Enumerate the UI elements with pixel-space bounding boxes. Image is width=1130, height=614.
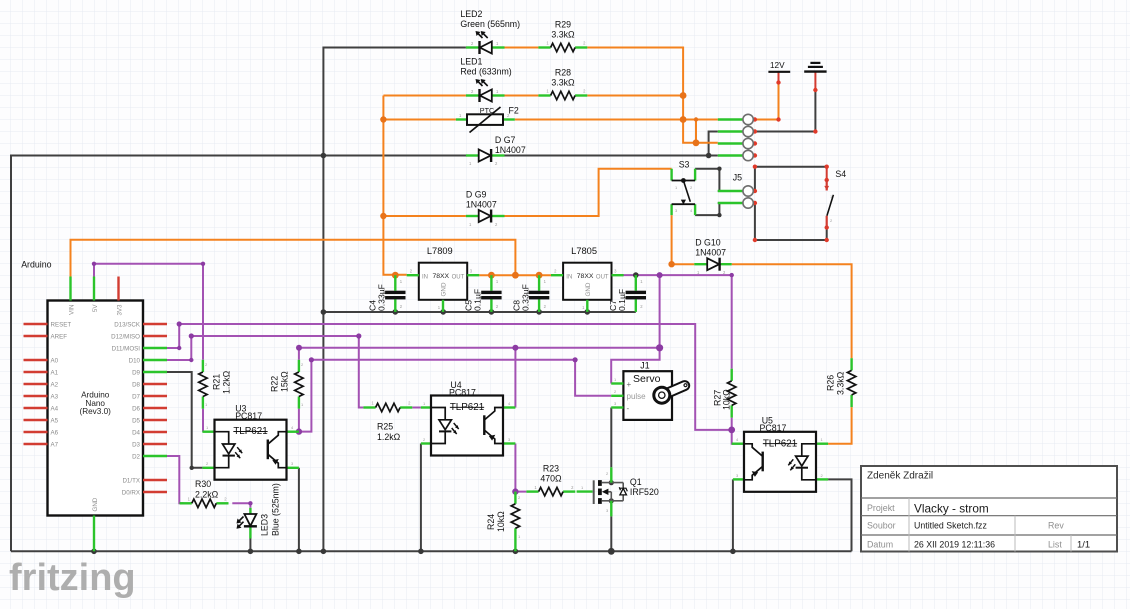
capacitor C5	[464, 275, 502, 312]
wire: gray header pin2 to earth symbol	[755, 90, 816, 132]
wire: orange header pin1 to 12V	[755, 83, 779, 120]
svg-text:Rev: Rev	[1048, 521, 1064, 531]
node junction (575.1,359.8)	[573, 357, 578, 362]
node junction (491.4,275.2)	[488, 272, 495, 279]
resistor R26 3.3k vertical	[826, 358, 856, 407]
node junction (611.3,551.3)	[608, 548, 615, 555]
wire: purple R21 bottom to U3 pin1	[202, 409, 204, 432]
node terminal (815.4,90)	[813, 88, 817, 92]
node junction (94,551.3)	[91, 549, 97, 555]
svg-text:A6: A6	[51, 429, 59, 436]
svg-text:D7: D7	[132, 393, 140, 400]
wire: orange D G9 to S3 common	[505, 169, 672, 216]
node junction (719.4,215.1)	[717, 213, 721, 217]
wire: purple L7805 out 5V feed	[623, 275, 732, 369]
node junction (659.6,275.1)	[657, 272, 663, 278]
title block	[861, 466, 1117, 552]
LED LED2 green	[460, 9, 520, 54]
svg-text:D0/RX: D0/RX	[122, 489, 140, 496]
svg-text:D G9: D G9	[466, 190, 487, 200]
node junction (250.4,503.3)	[248, 501, 252, 505]
svg-text:R26: R26	[826, 375, 836, 391]
node terminal (754.9,131.5)	[753, 129, 757, 133]
svg-text:0.33µF: 0.33µF	[520, 284, 530, 311]
wire: orange PTC row left	[383, 119, 456, 121]
node junction (420.9,551.3)	[418, 549, 424, 555]
wire: gray elbow header pin2	[709, 132, 718, 156]
svg-text:TLP621: TLP621	[450, 402, 484, 413]
svg-text:OUT: OUT	[596, 274, 609, 280]
node terminal (826.7,227.5)	[825, 225, 829, 229]
svg-text:D10: D10	[129, 357, 141, 364]
svg-text:D G10: D G10	[695, 238, 721, 248]
svg-text:PC817: PC817	[760, 423, 787, 433]
svg-text:fritzing: fritzing	[9, 557, 136, 599]
node junction (731.7,429.9)	[728, 427, 735, 434]
svg-text:OUT: OUT	[452, 274, 465, 280]
svg-text:RESET: RESET	[51, 321, 72, 328]
wire: purple D2 to R30	[167, 456, 183, 503]
svg-text:D6: D6	[132, 405, 140, 412]
wire: gray U4 pin2 to GND rail	[420, 444, 422, 552]
servo J1	[611, 361, 687, 420]
connector J5	[718, 173, 754, 209]
svg-text:S4: S4	[835, 169, 846, 179]
svg-text:12V: 12V	[770, 61, 785, 70]
wire: purple D10 rail y336 to R25	[167, 336, 363, 408]
svg-text:R28: R28	[555, 68, 571, 78]
wire: purple 5V pin to R21 top	[94, 264, 203, 360]
svg-text:5V: 5V	[92, 304, 99, 312]
connector 4-pin header circles	[718, 114, 754, 160]
node junction (515.4,347.8)	[512, 345, 518, 351]
svg-text:LED1: LED1	[460, 57, 482, 67]
wire: orange PTC row right to header pin1	[515, 119, 718, 121]
node junction (696,119.5)	[694, 117, 698, 121]
svg-text:J1: J1	[640, 361, 649, 371]
voltage regulator L7805	[551, 246, 624, 312]
node junction (659.6,347.8)	[656, 344, 663, 351]
wire: purple U3 pin4 to J1 pulse rail y360	[299, 360, 575, 432]
svg-text:S3: S3	[679, 159, 690, 169]
svg-text:1N4007: 1N4007	[466, 200, 497, 210]
power symbol 12V	[768, 61, 790, 75]
diode D G9 1N4007	[466, 190, 505, 228]
wire: purple U4 pin3 to gate node	[515, 444, 526, 492]
node junction (191.7,467.8)	[190, 466, 194, 470]
svg-text:+: +	[627, 380, 632, 389]
switch S3	[672, 159, 696, 215]
svg-text:L7809: L7809	[427, 246, 453, 256]
svg-text:Datum: Datum	[867, 540, 893, 550]
Arduino Nano module	[21, 260, 167, 552]
svg-text:D2: D2	[132, 453, 140, 460]
node terminal (754.9,119.5)	[753, 117, 757, 121]
svg-text:LED3: LED3	[260, 514, 270, 536]
node junction (683.1,95.5)	[680, 92, 687, 99]
svg-text:Untitled Sketch.fzz: Untitled Sketch.fzz	[914, 521, 987, 531]
wire: orange branch to header pin3	[696, 120, 718, 143]
node junction (696,142.8)	[693, 139, 700, 146]
svg-text:Vlacky - strom: Vlacky - strom	[914, 502, 989, 516]
svg-text:0.1µF: 0.1µF	[473, 289, 483, 311]
wire: gray U3 pin3 to GND rail	[298, 468, 300, 552]
node junction (611.3,500.8)	[609, 498, 614, 503]
node junction (203,263.8)	[201, 262, 205, 266]
resistor R27 10k vertical	[713, 369, 736, 418]
node junction (515.4,551.3)	[513, 549, 519, 555]
svg-text:pulse: pulse	[627, 392, 647, 401]
node junction (358.8,336)	[356, 333, 361, 338]
wire: purple R22 top link	[298, 348, 300, 360]
node junction (515.4,275.2)	[512, 272, 519, 279]
wire: gray S4 bottom to J5 pin2	[755, 203, 827, 240]
node junction (383.4,119.5)	[380, 116, 386, 122]
wire: red 12V symbol leg	[778, 72, 780, 83]
svg-text:A7: A7	[51, 441, 59, 448]
wire: gray LED3 cathode to GND rail	[249, 539, 251, 552]
node terminal (754.9,166.7)	[753, 165, 757, 169]
svg-text:D G7: D G7	[495, 135, 516, 145]
svg-text:A4: A4	[51, 405, 59, 412]
wire: orange R29 out to junction column	[587, 48, 696, 143]
node junction (191.3,360)	[189, 358, 193, 362]
svg-text:D11/MOSI: D11/MOSI	[112, 345, 141, 352]
node terminal (778.5,82.5)	[776, 80, 780, 84]
node terminal (826.7,240)	[825, 238, 829, 242]
svg-text:R30: R30	[195, 479, 211, 489]
resistor R25 1.2k	[363, 401, 412, 442]
node junction (383.4,216)	[380, 213, 386, 219]
svg-text:A2: A2	[51, 381, 59, 388]
node junction (94,263.8)	[92, 262, 96, 266]
wire: purple R27 bottom to U5 pin4	[732, 418, 744, 444]
svg-text:GND: GND	[92, 497, 99, 511]
node terminal (754.9,203)	[753, 201, 757, 205]
node junction (191.3,336)	[189, 333, 194, 338]
svg-text:GND: GND	[585, 282, 592, 296]
capacitor C7	[608, 275, 646, 312]
svg-text:1/1: 1/1	[1077, 539, 1090, 550]
wire: purple R25 out to U4 pin1	[412, 407, 421, 409]
node junction (719.4,168.7)	[717, 167, 721, 171]
node junction (298.9,431.6)	[296, 428, 302, 434]
resistor R23 470	[526, 464, 575, 496]
node junction (323.4,551.3)	[321, 549, 327, 555]
svg-text:78XX: 78XX	[432, 273, 449, 280]
svg-text:IRF520: IRF520	[630, 487, 659, 497]
node terminal (754.9,143.5)	[753, 141, 757, 145]
svg-text:3.3kΩ: 3.3kΩ	[836, 371, 846, 395]
svg-text:10kΩ: 10kΩ	[496, 511, 506, 532]
node junction (708.6,155.5)	[706, 153, 712, 159]
wire: orange D G9 row left	[383, 215, 466, 217]
svg-text:TLP621: TLP621	[233, 426, 267, 437]
wire: gray S3 throw1 to J5 pin1	[695, 169, 719, 191]
wire: purple J1 plus to 5V	[611, 275, 659, 383]
node junction (587.3,311.9)	[585, 309, 591, 315]
svg-text:Arduino: Arduino	[21, 260, 51, 270]
wire: orange 12V vertical x383 LED1/PTC/DG9 feed	[383, 96, 406, 275]
node junction (683.1,119.5)	[680, 116, 687, 123]
svg-text:(Rev3.0): (Rev3.0)	[79, 407, 111, 416]
svg-text:R25: R25	[377, 422, 393, 432]
svg-text:PTC: PTC	[480, 106, 494, 115]
node terminal (826.7,180)	[825, 178, 829, 182]
optocoupler U4 PC817	[421, 380, 516, 456]
svg-text:1N4007: 1N4007	[495, 145, 526, 155]
ground earth symbol	[804, 63, 826, 72]
node junction (443.2,311.9)	[440, 309, 446, 315]
node terminal (778.5,119.5)	[776, 117, 780, 121]
svg-text:IN: IN	[566, 274, 572, 280]
resistor R22 15k vertical	[270, 360, 305, 409]
node junction (635.8,275.1)	[633, 272, 639, 278]
optocoupler U5 PC817 mirrored	[732, 416, 828, 492]
svg-text:D5: D5	[132, 417, 140, 424]
wire: purple D11/MOSI rail y324 to U5 net	[167, 324, 732, 430]
node junction (611.3,482.6)	[609, 480, 614, 485]
svg-text:78XX: 78XX	[577, 273, 594, 280]
svg-text:Soubor: Soubor	[867, 521, 896, 531]
svg-text:GND: GND	[441, 282, 448, 296]
svg-text:L7805: L7805	[571, 246, 597, 256]
svg-text:VIN: VIN	[69, 305, 76, 315]
node junction (671.6,264.2)	[668, 261, 674, 267]
resistor R24 10k vertical	[486, 492, 521, 552]
svg-text:1N4007: 1N4007	[695, 248, 726, 258]
wire: gray GND rail y312	[323, 311, 635, 313]
svg-text:15kΩ: 15kΩ	[280, 371, 290, 392]
node junction (515.4,491.6)	[512, 488, 518, 494]
svg-text:Red (633nm): Red (633nm)	[460, 67, 511, 77]
wire: gray U5 pin2 to GND rail right	[828, 479, 851, 551]
node junction (323.4,312)	[321, 309, 327, 315]
wire: gray Q1 source to GND rail	[610, 516, 612, 551]
node junction (323.4,155.5)	[321, 153, 327, 159]
svg-text:A0: A0	[51, 357, 59, 364]
svg-text:IN: IN	[422, 274, 428, 280]
transistor Q1 IRF520 MOSFET	[577, 467, 659, 516]
svg-text:F2: F2	[509, 106, 519, 116]
svg-text:Servo: Servo	[633, 373, 661, 385]
wire: orange R26 bottom to U5 pin1	[828, 407, 852, 444]
svg-text:R24: R24	[486, 514, 496, 530]
diode D G10 1N4007	[694, 238, 731, 276]
LED LED3 blue vertical	[237, 483, 281, 538]
node junction (179.2,348)	[177, 346, 181, 350]
svg-text:AREF: AREF	[51, 333, 68, 340]
optocoupler U3 PC817	[202, 404, 299, 480]
node junction (731.7,275.1)	[730, 273, 734, 277]
wire: purple drop to J1 pulse	[575, 360, 611, 396]
svg-text:J5: J5	[733, 173, 742, 183]
node junction (311.4,359.8)	[309, 357, 314, 362]
wire: purple R22 bottom / U3 pin4 node	[298, 409, 300, 432]
wire: gray U5 pin3 to GND rail	[732, 479, 734, 551]
svg-text:PC817: PC817	[235, 411, 262, 421]
svg-text:R29: R29	[555, 20, 571, 30]
wire: orange VIN to 9V rail	[71, 240, 516, 277]
svg-text:A3: A3	[51, 393, 59, 400]
svg-text:D13/SCK: D13/SCK	[114, 321, 141, 328]
wire: orange R28 out	[587, 95, 683, 97]
svg-text:A5: A5	[51, 417, 59, 424]
svg-text:D1/TX: D1/TX	[122, 477, 140, 484]
node terminal (754.9,240)	[753, 238, 757, 242]
node junction (539.1,275.2)	[536, 272, 543, 279]
svg-text:D8: D8	[132, 381, 140, 388]
svg-text:0.33µF: 0.33µF	[377, 284, 387, 311]
svg-text:List: List	[1048, 540, 1062, 550]
resistor R21 1.2k vertical	[199, 360, 232, 409]
svg-text:D12/MISO: D12/MISO	[111, 333, 140, 340]
node terminal (754.9,155.5)	[753, 153, 757, 157]
LED LED1 red	[460, 57, 511, 103]
node junction (395.3,275.2)	[392, 272, 399, 279]
node junction (179.2,324)	[177, 321, 182, 326]
node terminal (815.4,131.5)	[813, 129, 817, 133]
wire: red earth symbol leg	[814, 72, 816, 90]
svg-text:D9: D9	[132, 369, 140, 376]
resistor R28 3.3k	[538, 68, 587, 100]
svg-text:D4: D4	[132, 429, 140, 436]
svg-text:3.3kΩ: 3.3kΩ	[551, 78, 575, 88]
node junction (250.4,551.3)	[248, 549, 254, 555]
resistor R29 3.3k	[538, 20, 587, 52]
svg-text:Projekt: Projekt	[867, 503, 895, 513]
svg-text:10kΩ: 10kΩ	[722, 389, 732, 410]
wire: orange rail L7809 out / caps	[479, 274, 551, 276]
svg-text:R21: R21	[212, 374, 222, 390]
node terminal (826.7,166.7)	[825, 165, 829, 169]
voltage regulator L7809	[407, 246, 480, 312]
capacitor C8	[511, 275, 549, 312]
wire: gray D G7 row right to header	[505, 155, 718, 157]
svg-text:Q1: Q1	[630, 477, 642, 487]
svg-text:LED2: LED2	[460, 9, 482, 19]
node terminal (754.9,191)	[753, 189, 757, 193]
node junction (732.9,551.3)	[730, 549, 736, 555]
wire: gray J1 minus to Q1 drain	[610, 408, 612, 468]
wire: orange LED1 to R28	[505, 95, 539, 97]
wire: purple 5V rail y348	[299, 347, 660, 349]
svg-text:D3: D3	[132, 441, 140, 448]
switch S4	[824, 169, 846, 228]
svg-text:R22: R22	[270, 376, 280, 392]
node junction (395.3,311.9)	[393, 309, 399, 315]
wire: gray D9 to U3 pin2	[167, 372, 202, 468]
svg-text:Green (565nm): Green (565nm)	[460, 19, 520, 29]
svg-text:R23: R23	[543, 464, 559, 474]
svg-text:3V3: 3V3	[117, 304, 124, 316]
svg-text:3.3kΩ: 3.3kΩ	[551, 30, 575, 40]
wire: red S4 top link	[826, 167, 828, 180]
svg-text:A1: A1	[51, 369, 59, 376]
node junction (539.1,311.9)	[536, 309, 542, 315]
svg-text:26 XII 2019 12:11:36: 26 XII 2019 12:11:36	[914, 540, 995, 550]
svg-text:Blue (525nm): Blue (525nm)	[271, 483, 281, 536]
node junction (491.4,311.9)	[489, 309, 495, 315]
fuse PTC F2	[456, 106, 519, 133]
svg-text:2.2kΩ: 2.2kΩ	[195, 490, 219, 500]
wire: orange LED1 row left	[383, 95, 466, 97]
wire: gray S3 throw2 to J5 pin2	[695, 203, 719, 215]
node junction (299,347.8)	[296, 345, 302, 351]
capacitor C4	[368, 275, 406, 312]
svg-text:0.1µF: 0.1µF	[617, 289, 627, 311]
resistor R30 2.2k	[180, 479, 229, 507]
wire: gray GND left trunk + D G7 row left	[11, 156, 468, 552]
svg-text:PC817: PC817	[449, 388, 476, 398]
wire: gray net LED2-cathode to GND trunk	[323, 48, 466, 552]
wire: purple R30 out to LED3	[232, 503, 250, 508]
wire: gray J5 pin1 to S4 top	[755, 167, 827, 191]
wire: gray bottom GND rail	[11, 550, 852, 552]
diode D G7 1N4007	[466, 135, 526, 166]
svg-text:1.2kΩ: 1.2kΩ	[222, 370, 232, 394]
svg-text:-: -	[627, 404, 630, 413]
wire: orange LED2 to R29	[505, 47, 539, 49]
svg-text:470Ω: 470Ω	[540, 474, 562, 484]
svg-text:Zdeněk Zdražil: Zdeněk Zdražil	[867, 471, 933, 482]
svg-text:TLP621: TLP621	[763, 438, 797, 449]
svg-text:1.2kΩ: 1.2kΩ	[377, 432, 401, 442]
wire: purple U4 pin4 riser to 5V rail	[514, 348, 516, 408]
node junction (298.9,551.3)	[296, 549, 302, 555]
wire: orange S3 pole2 down to D G10	[672, 215, 695, 264]
wire: orange D G10 out to R26 top	[732, 264, 852, 358]
